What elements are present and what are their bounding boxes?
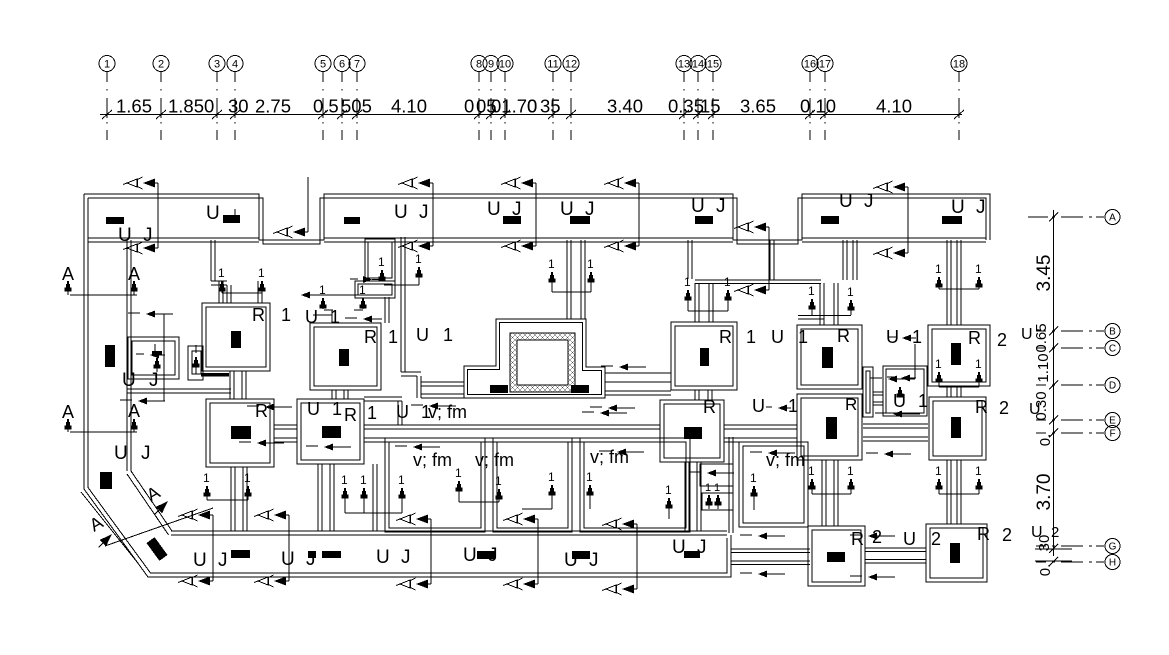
svg-text:1: 1 (332, 399, 342, 419)
grid circle 14 (690, 56, 706, 72)
column (503, 216, 521, 224)
svg-text:U: U (752, 396, 765, 416)
svg-text:A: A (128, 401, 140, 421)
grid circle 4 (227, 56, 243, 72)
svg-text:1: 1 (975, 357, 982, 371)
grid circle B (1105, 324, 1120, 339)
svg-text:3.45: 3.45 (1034, 255, 1055, 292)
section arrow pair x=182 (178, 509, 213, 521)
column (827, 552, 845, 562)
room R1 center-upper (671, 322, 737, 390)
svg-text:R: R (364, 327, 377, 347)
svg-text:1: 1 (218, 266, 225, 280)
column (106, 217, 124, 224)
column (821, 216, 839, 224)
svg-text:1: 1 (548, 257, 555, 271)
svg-text:18: 18 (953, 59, 965, 71)
svg-text:7: 7 (354, 59, 360, 71)
svg-text:1: 1 (714, 482, 720, 494)
svg-text:v; fm: v; fm (413, 450, 452, 470)
section arrow pair x=127 (123, 177, 158, 189)
svg-text:J: J (141, 443, 151, 464)
room R1 upper-left (202, 303, 270, 371)
grid circle 9 (483, 56, 499, 72)
single section arrow (273, 226, 308, 238)
svg-text:1: 1 (587, 257, 594, 271)
svg-text:U: U (560, 199, 574, 220)
svg-text:1: 1 (847, 285, 854, 299)
svg-text:U: U (396, 402, 409, 422)
svg-text:505: 505 (341, 96, 372, 117)
svg-text:J: J (512, 199, 522, 220)
dashed arrow (850, 534, 862, 536)
svg-text:J: J (218, 550, 228, 571)
svg-text:U: U (193, 550, 207, 571)
svg-text:1: 1 (847, 464, 854, 478)
svg-text:U: U (376, 547, 390, 568)
svg-text:1: 1 (388, 327, 398, 347)
svg-text:R: R (975, 397, 988, 417)
svg-text:J: J (864, 191, 874, 212)
bottom corridor walls (171, 530, 727, 532)
room R center (660, 400, 724, 462)
svg-text:3.70: 3.70 (1034, 474, 1055, 511)
svg-text:R: R (851, 529, 864, 549)
svg-text:1: 1 (415, 252, 422, 266)
room R2 bottom-left (808, 526, 865, 586)
grid circle G (1105, 539, 1120, 554)
grid circle 11 (545, 56, 561, 72)
grid circle 7 (349, 56, 365, 72)
svg-text:J: J (149, 370, 159, 391)
svg-text:1: 1 (341, 473, 348, 487)
grid circle 15 (705, 56, 721, 72)
diagonal column (146, 537, 167, 561)
right dimension line (1053, 210, 1055, 556)
grid circle 1 (99, 56, 115, 72)
left outer wall + diagonal (84, 194, 731, 577)
column (231, 331, 241, 348)
svg-text:1: 1 (258, 266, 265, 280)
column (695, 216, 713, 224)
svg-text:1: 1 (798, 327, 808, 347)
svg-text:U: U (691, 196, 705, 217)
svg-text:U: U (281, 549, 295, 570)
dashed arrow (740, 572, 752, 574)
svg-text:2: 2 (999, 398, 1009, 418)
svg-text:D: D (1109, 381, 1116, 392)
svg-text:1: 1 (330, 307, 340, 327)
small cluster boxes (355, 281, 395, 298)
svg-text:8: 8 (476, 59, 482, 71)
grid circle 13 (676, 56, 692, 72)
svg-text:30: 30 (228, 96, 249, 117)
section arrow pair x=402 (398, 177, 433, 189)
svg-text:v; fm: v; fm (475, 450, 514, 470)
svg-text:A: A (1109, 213, 1116, 224)
svg-text:J: J (401, 547, 411, 568)
column (322, 551, 341, 558)
grid circle A (1105, 210, 1120, 225)
svg-text:J: J (697, 537, 707, 558)
grid circle 10 (497, 56, 513, 72)
svg-text:U: U (416, 325, 429, 345)
svg-text:U: U (307, 399, 320, 419)
dashed arrow (239, 441, 251, 443)
svg-text:0.10: 0.10 (800, 96, 836, 117)
column (826, 417, 837, 439)
svg-text:2: 2 (158, 59, 164, 71)
section arrow pair x=258 (254, 509, 289, 521)
svg-text:1: 1 (495, 474, 502, 488)
svg-text:U: U (463, 545, 477, 566)
svg-text:0: 0 (464, 96, 474, 117)
passage bottom R2 rooms (865, 547, 926, 549)
dashed arrow (850, 575, 862, 577)
tall narrow box (365, 239, 395, 281)
dashed arrow (740, 534, 752, 536)
shaft flank columns (490, 385, 508, 393)
column (950, 543, 960, 563)
room R2 top-right (928, 325, 990, 386)
svg-text:1: 1 (918, 391, 928, 411)
dashed arrow (601, 365, 613, 367)
svg-text:0.35: 0.35 (668, 96, 704, 117)
grid circle 12 (563, 56, 579, 72)
section arrow pair x=877 (873, 181, 908, 193)
svg-text:1: 1 (975, 262, 982, 276)
dashed arrow (411, 404, 423, 406)
dashed arrow (247, 405, 259, 407)
svg-text:3.40: 3.40 (607, 96, 643, 117)
svg-text:4.10: 4.10 (391, 96, 427, 117)
svg-text:U: U (903, 529, 916, 549)
svg-text:1.65: 1.65 (116, 96, 152, 117)
svg-text:R: R (703, 397, 716, 417)
svg-text:12: 12 (565, 59, 577, 71)
svg-text:0: 0 (527, 96, 537, 117)
grid circle E (1105, 413, 1120, 428)
svg-text:15: 15 (700, 96, 721, 117)
small boxes row left (128, 337, 179, 379)
svg-text:1: 1 (705, 482, 711, 494)
column (308, 551, 316, 558)
svg-text:U: U (394, 202, 408, 223)
svg-text:9: 9 (488, 59, 494, 71)
svg-text:1: 1 (586, 470, 593, 484)
room R1 right upper (797, 325, 862, 389)
spine corridor to R2a (946, 240, 948, 325)
grid circle 18 (951, 56, 967, 72)
svg-text:R: R (837, 326, 850, 346)
svg-text:1.10: 1.10 (1035, 353, 1052, 382)
svg-text:0.65: 0.65 (1033, 323, 1050, 352)
left wall columns (105, 345, 115, 367)
grid circle 5 (315, 56, 331, 72)
stub above lower-mid room (364, 396, 402, 398)
wall right of box (400, 237, 402, 372)
svg-text:J: J (143, 225, 153, 246)
svg-text:1: 1 (244, 471, 251, 485)
svg-text:J: J (306, 549, 316, 570)
left arrow into cluster row (301, 292, 310, 299)
spine down to bottom room (821, 460, 823, 526)
column (951, 343, 961, 365)
svg-text:R: R (252, 305, 265, 325)
spines to bottom corridor (230, 467, 232, 531)
slot-room connector lines (873, 391, 883, 393)
section arrow pair x=507 (503, 513, 538, 525)
svg-text:1: 1 (724, 275, 731, 289)
column (951, 417, 961, 438)
dashed arrow (120, 399, 132, 401)
svg-text:1: 1 (443, 325, 453, 345)
narrow slot box (863, 367, 873, 417)
svg-text:2: 2 (931, 529, 941, 549)
room v;fm 4 (739, 442, 808, 527)
svg-text:R: R (977, 524, 990, 544)
bottom corridor right passage (731, 548, 810, 550)
svg-text:J: J (488, 545, 498, 566)
svg-text:U: U (1021, 326, 1033, 343)
svg-text:1: 1 (203, 471, 210, 485)
mid horizontal wall (274, 424, 297, 426)
grid circle H (1105, 555, 1120, 570)
svg-text:1: 1 (684, 275, 691, 289)
narrow box B (188, 346, 203, 380)
svg-text:5: 5 (320, 59, 326, 71)
svg-text:J: J (976, 197, 986, 218)
svg-text:U: U (893, 391, 906, 411)
svg-text:1: 1 (746, 327, 756, 347)
svg-text:1: 1 (104, 59, 110, 71)
column (339, 349, 349, 366)
dashed arrow (582, 411, 594, 413)
svg-text:R: R (968, 328, 981, 348)
room v;fm 3 (580, 438, 690, 532)
svg-text:1: 1 (935, 357, 942, 371)
grid circle 16 (802, 56, 818, 72)
dashed arrow (866, 452, 878, 454)
svg-text:R: R (845, 395, 857, 414)
svg-text:1: 1 (367, 403, 377, 423)
svg-text:1: 1 (808, 464, 815, 478)
spines center room up (687, 240, 689, 279)
svg-text:U: U (839, 191, 853, 212)
svg-text:1: 1 (398, 473, 405, 487)
svg-text:B: B (1109, 327, 1116, 338)
svg-text:U: U (118, 225, 132, 246)
room R lower-left (206, 399, 274, 467)
svg-text:10: 10 (499, 59, 511, 71)
dashed arrow (875, 412, 887, 414)
column (822, 347, 833, 368)
spines center room down (684, 462, 686, 531)
room R1 mid (310, 323, 381, 390)
svg-text:G: G (1109, 542, 1117, 553)
svg-text:1: 1 (808, 284, 815, 298)
svg-text:3: 3 (214, 59, 220, 71)
column (477, 551, 495, 559)
room v;fm 2 (493, 438, 572, 532)
svg-text:2: 2 (1051, 524, 1059, 541)
svg-text:H: H (1109, 558, 1116, 569)
svg-text:1: 1 (455, 466, 462, 480)
room R2 mid-right (929, 397, 986, 460)
svg-text:1: 1 (975, 464, 982, 478)
column (231, 426, 251, 439)
svg-text:U: U (951, 197, 965, 218)
svg-text:1: 1 (665, 483, 672, 497)
svg-text:0.: 0. (1037, 564, 1054, 577)
dashed arrow (590, 406, 602, 408)
svg-text:J: J (419, 202, 429, 223)
svg-text:U: U (771, 327, 784, 347)
dashed arrow (689, 471, 701, 473)
grid circle D (1105, 378, 1120, 393)
grid circle C (1105, 341, 1120, 356)
section arrow pair x=400 (396, 513, 431, 525)
column (684, 427, 702, 439)
section line A diagonal (81, 492, 137, 562)
small boxes right of v;fm3 (700, 464, 733, 486)
svg-text:1: 1 (935, 262, 942, 276)
small middle rooms (883, 366, 927, 416)
svg-text:F: F (1109, 429, 1115, 440)
column (700, 348, 709, 366)
svg-text:11: 11 (547, 59, 558, 71)
section arrow pair x=505 (501, 177, 536, 189)
svg-text:U: U (122, 370, 136, 391)
svg-text:U: U (672, 537, 686, 558)
room lower-mid (297, 399, 364, 464)
column (942, 216, 962, 224)
spines lower-mid down (317, 464, 319, 531)
room R2 bottom-right (926, 524, 987, 582)
dashed arrow (750, 451, 762, 453)
grid circle 6 (334, 56, 350, 72)
svg-text:17: 17 (819, 59, 831, 71)
svg-text:U: U (1031, 524, 1043, 541)
column (344, 217, 360, 224)
svg-text:6: 6 (339, 59, 345, 71)
svg-text:0.: 0. (1037, 434, 1054, 447)
svg-text:1: 1 (912, 327, 922, 347)
column (223, 215, 240, 223)
shaft enclosure (464, 319, 605, 398)
svg-text:2: 2 (1002, 525, 1012, 545)
inner diagonal wall (131, 471, 172, 531)
spine from corridor (842, 240, 844, 280)
box contents (152, 351, 162, 355)
svg-text:R: R (344, 405, 357, 425)
dashed arrows (163, 314, 165, 401)
svg-text:1.850: 1.850 (168, 96, 214, 117)
upper-left room step wall (210, 240, 212, 281)
svg-text:1: 1 (788, 396, 798, 416)
walls right of shaft (605, 372, 671, 374)
svg-text:C: C (1109, 344, 1116, 355)
walls left of shaft (421, 381, 464, 383)
svg-text:35: 35 (540, 96, 561, 117)
svg-text:U: U (206, 203, 220, 224)
svg-text:1: 1 (750, 471, 757, 485)
svg-text:16: 16 (804, 59, 816, 71)
svg-text:0.5: 0.5 (313, 96, 339, 117)
svg-text:U: U (114, 443, 128, 464)
section arrow pair x=608 (604, 177, 639, 189)
doorway spines (218, 281, 220, 303)
svg-text:1: 1 (281, 305, 291, 325)
svg-text:U: U (564, 550, 578, 571)
grid circle 8 (471, 56, 487, 72)
svg-text:R: R (719, 327, 732, 347)
dashed arrow (870, 377, 882, 379)
grid circle 17 (817, 56, 833, 72)
dashed arrow (306, 445, 318, 447)
svg-text:J: J (585, 199, 595, 220)
dashed arrow (128, 312, 140, 314)
svg-text:3.65: 3.65 (740, 96, 776, 117)
svg-text:E: E (1109, 416, 1116, 427)
grid circle 3 (209, 56, 225, 72)
top dimension line (100, 114, 962, 116)
grid circle F (1105, 426, 1120, 441)
svg-text:1: 1 (360, 473, 367, 487)
outer wall (84, 194, 990, 240)
svg-text:4.10: 4.10 (876, 96, 912, 117)
section arrow pair x=738 (734, 221, 769, 233)
spines R1a down (229, 371, 231, 399)
svg-text:U: U (1029, 401, 1041, 418)
svg-text:13: 13 (678, 59, 690, 71)
dashed arrow (395, 445, 407, 447)
thin bar below R1a (201, 373, 229, 377)
svg-text:14: 14 (692, 59, 704, 71)
left room wall (126, 240, 128, 471)
svg-text:R: R (255, 401, 268, 421)
section arrow pair x=606 (602, 518, 637, 530)
svg-text:U: U (305, 307, 318, 327)
svg-text:4: 4 (232, 59, 238, 71)
hatched wall of shaft (510, 333, 575, 392)
top corridor bottom wall (88, 237, 259, 239)
grid circle 2 (153, 56, 169, 72)
svg-text:2.75: 2.75 (255, 96, 291, 117)
column (572, 551, 590, 559)
shaft top spines (566, 240, 568, 319)
column (570, 216, 590, 224)
svg-text:U: U (487, 199, 501, 220)
svg-text:1: 1 (378, 255, 385, 269)
svg-text:1: 1 (935, 464, 942, 478)
svg-text:1: 1 (548, 470, 555, 484)
room v;fm 1 (385, 438, 485, 532)
dashed arrow (599, 450, 611, 452)
svg-text:J: J (589, 550, 599, 571)
svg-text:J: J (716, 196, 726, 217)
room right lower (797, 394, 862, 460)
column (684, 551, 700, 558)
spine R2b down (946, 460, 948, 524)
svg-text:2: 2 (997, 330, 1007, 350)
svg-text:15: 15 (707, 59, 719, 71)
column (322, 426, 341, 438)
column (231, 550, 250, 558)
